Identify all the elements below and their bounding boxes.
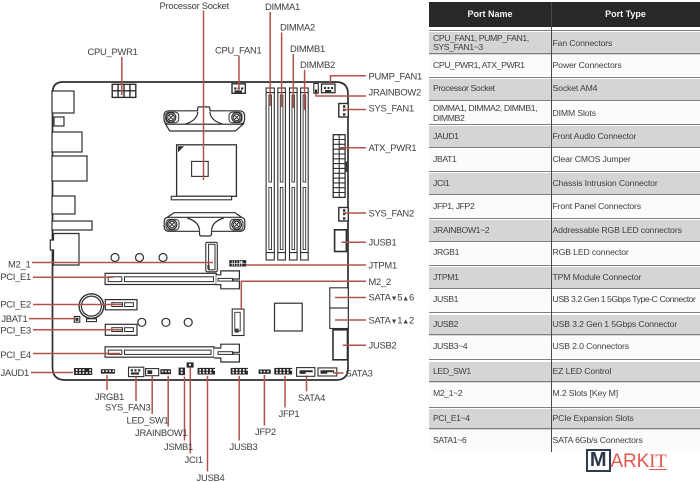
connector SATA4 <box>297 368 315 377</box>
wire M2_1 leader <box>32 262 213 264</box>
svg-text:SYS_FAN2: SYS_FAN2 <box>369 208 414 219</box>
label JRAINBOW2 <box>369 87 421 98</box>
connector JRGB1 <box>101 369 115 373</box>
label SATA4 <box>298 392 325 403</box>
mounting hole B <box>162 318 170 326</box>
label DIMMA2 <box>280 22 315 33</box>
connector JUSB2 <box>333 330 348 360</box>
svg-text:SATA▼1▲2: SATA▼1▲2 <box>369 315 414 326</box>
connector SYS_FAN2 <box>339 208 349 222</box>
label JRGB1 <box>95 391 124 402</box>
label SATA56 <box>369 292 414 303</box>
wire SATA12 leader <box>335 319 366 321</box>
label SATA12 <box>369 315 414 326</box>
svg-text:PCI_E3: PCI_E3 <box>0 324 31 335</box>
wire JSMB1 leader <box>184 377 186 441</box>
label DIMMB1 <box>290 43 325 54</box>
rear IO block 1 <box>52 91 74 113</box>
pcie slot PCI_E4 <box>105 344 239 362</box>
cpu retention bracket top <box>164 107 245 131</box>
wire Processor Socket leader <box>203 11 205 181</box>
wire DIMMA2 leader <box>281 33 283 108</box>
pcie slot PCI_E2 <box>105 300 137 310</box>
svg-text:DIMMB1: DIMMB1 <box>290 43 325 54</box>
connector JRAINBOW1 <box>160 369 171 374</box>
connector JCI1 <box>187 362 194 367</box>
wire M2_2 leader <box>241 281 366 310</box>
svg-text:JCI1: JCI1 <box>185 454 203 465</box>
connector SYS_FAN3 <box>129 367 144 376</box>
connector CPU_FAN1 <box>232 84 245 94</box>
svg-text:PCI_E1: PCI_E1 <box>0 271 31 282</box>
wire PUMP_FAN1 leader <box>331 76 367 84</box>
svg-text:ATX_PWR1: ATX_PWR1 <box>369 142 417 153</box>
wire SYS_FAN2 leader <box>343 212 366 214</box>
board outline <box>53 82 349 380</box>
connector JRAINBOW2 <box>314 84 319 94</box>
svg-text:JUSB4: JUSB4 <box>197 472 225 482</box>
wire PCI_E2 leader <box>33 304 122 306</box>
wire JTPM1 leader <box>246 264 366 266</box>
wire LED_SW1 leader <box>151 376 153 414</box>
wire SATA4 leader <box>306 377 308 392</box>
label JTPM1 <box>369 260 397 271</box>
svg-text:JUSB2: JUSB2 <box>369 340 397 351</box>
wire CPU_FAN1 leader <box>238 56 240 89</box>
connector SYS_FAN1 <box>339 104 349 118</box>
svg-text:DIMMA2: DIMMA2 <box>280 22 315 33</box>
wire JFP2 leader <box>263 375 265 426</box>
svg-text:PUMP_FAN1: PUMP_FAN1 <box>369 71 423 82</box>
svg-text:JRAINBOW1: JRAINBOW1 <box>135 427 187 438</box>
wire JCI1 leader <box>189 367 191 453</box>
connector PUMP_FAN1 <box>322 84 336 93</box>
svg-text:JAUD1: JAUD1 <box>1 367 29 378</box>
label ATX_PWR1 <box>369 142 417 153</box>
label PCI_E3 <box>0 324 31 335</box>
svg-text:LED_SW1: LED_SW1 <box>127 415 169 426</box>
svg-text:SYS_FAN1: SYS_FAN1 <box>369 103 414 114</box>
wire JRGB1 leader <box>106 375 108 390</box>
wire PCI_E3 leader <box>33 329 122 331</box>
wire SATA56 leader <box>335 297 366 299</box>
connector M2_1 <box>206 242 218 271</box>
wire CPU_PWR1 leader <box>121 57 123 95</box>
wire JBAT1 leader <box>29 318 76 320</box>
svg-text:JTPM1: JTPM1 <box>369 260 397 271</box>
svg-text:JFP2: JFP2 <box>255 426 276 437</box>
wire SYS_FAN3 leader <box>135 377 137 401</box>
wire JUSB1 leader <box>342 241 367 243</box>
svg-text:PCI_E4: PCI_E4 <box>0 349 31 360</box>
connector JUSB4 <box>198 368 215 375</box>
rear IO block 3 <box>52 132 82 152</box>
connector ATX_PWR1 <box>333 135 348 198</box>
svg-text:SATA4: SATA4 <box>298 392 325 403</box>
connector SATA5 SATA6 <box>330 288 349 308</box>
chipset <box>275 303 303 331</box>
label PCI_E1 <box>0 271 31 282</box>
connector JUSB3 <box>231 368 248 375</box>
connector JFP2 <box>259 370 271 374</box>
wire SYS_FAN1 leader <box>344 109 366 111</box>
wire DIMMA1 leader <box>269 12 271 106</box>
svg-text:JUSB3: JUSB3 <box>230 441 258 452</box>
mounting hole D <box>111 254 119 262</box>
label M2_2 <box>369 276 391 287</box>
mounting hole F <box>159 254 167 262</box>
rear IO block 6 <box>52 221 92 230</box>
label JUSB1 <box>369 237 397 248</box>
label LED_SW1 <box>127 415 169 426</box>
svg-text:DIMMB2: DIMMB2 <box>300 59 335 70</box>
mounting hole E <box>136 254 144 262</box>
label SYS_FAN2 <box>369 208 414 219</box>
mounting hole A <box>138 318 146 326</box>
label DIMMA1 <box>265 1 300 12</box>
svg-text:M2_1: M2_1 <box>8 258 30 269</box>
label JAUD1 <box>1 367 29 378</box>
connector JSMB1 <box>179 368 185 376</box>
rear IO block 5 <box>52 196 75 214</box>
label PCI_E4 <box>0 349 31 360</box>
pcie slot PCI_E1 <box>105 271 239 289</box>
svg-text:JRAINBOW2: JRAINBOW2 <box>369 87 421 98</box>
connector JFP1 <box>274 368 292 375</box>
wire JRAINBOW1 leader <box>167 376 169 427</box>
label PUMP_FAN1 <box>369 71 423 82</box>
label DIMMB2 <box>300 59 335 70</box>
svg-text:Processor Socket: Processor Socket <box>160 0 230 11</box>
label JFP2 <box>255 426 276 437</box>
connector JAUD1 <box>74 368 92 375</box>
battery <box>79 294 104 322</box>
connector M2_2 <box>232 309 244 336</box>
label JUSB3 <box>230 441 258 452</box>
label M2_1 <box>8 258 30 269</box>
svg-text:SATA3: SATA3 <box>346 368 373 379</box>
svg-text:JBAT1: JBAT1 <box>1 313 27 324</box>
cpu retention bracket bottom <box>164 213 245 236</box>
wire SATA3 leader <box>333 372 344 374</box>
wire ATX_PWR1 leader <box>340 147 366 149</box>
svg-text:SYS_FAN3: SYS_FAN3 <box>105 402 150 413</box>
svg-text:JSMB1: JSMB1 <box>164 441 193 452</box>
label PCI_E2 <box>0 298 31 309</box>
pcie slot PCI_E3 <box>105 324 137 335</box>
svg-text:DIMMA1: DIMMA1 <box>265 1 300 12</box>
connector CPU_PWR1 <box>112 84 136 97</box>
svg-text:CPU_PWR1: CPU_PWR1 <box>88 46 138 57</box>
label JSMB1 <box>164 441 193 452</box>
label JUSB2 <box>369 340 397 351</box>
rear IO block 2 <box>54 117 64 126</box>
wire JUSB4 leader <box>207 376 209 472</box>
wire DIMMB2 leader <box>304 70 306 110</box>
wire DIMMB1 leader <box>292 54 294 108</box>
wire JUSB2 leader <box>343 344 366 346</box>
dimm slot DIMMB1 <box>290 88 298 260</box>
rear IO block 7 <box>50 234 79 266</box>
label SATA3 <box>346 368 373 379</box>
label Processor Socket <box>160 0 230 11</box>
svg-text:JRGB1: JRGB1 <box>95 391 124 402</box>
connector JTPM1 <box>230 261 246 266</box>
wire PCI_E1 leader <box>33 276 113 278</box>
svg-text:SATA▼5▲6: SATA▼5▲6 <box>369 292 414 303</box>
mounting hole C <box>184 318 192 326</box>
label JUSB4 <box>197 472 225 482</box>
dimm slot DIMMA2 <box>278 88 286 260</box>
connector JUSB1 <box>335 230 347 252</box>
wire JFP1 leader <box>284 376 286 408</box>
dimm slot DIMMA1 <box>266 88 274 260</box>
label JCI1 <box>185 454 203 465</box>
jumper JBAT1 <box>74 316 80 322</box>
label CPU_FAN1 <box>215 45 261 56</box>
svg-text:JFP1: JFP1 <box>279 408 300 419</box>
label JRAINBOW1 <box>135 427 187 438</box>
rear IO block 4 <box>52 156 87 181</box>
label SYS_FAN3 <box>105 402 150 413</box>
switch LED_SW1 <box>146 369 159 376</box>
svg-text:JUSB1: JUSB1 <box>369 237 397 248</box>
label JBAT1 <box>1 313 27 324</box>
label SYS_FAN1 <box>369 103 414 114</box>
connector SATA1 SATA2 <box>330 308 349 329</box>
wire JRAINBOW2 leader <box>316 93 366 96</box>
wire PCI_E4 leader <box>33 353 120 355</box>
svg-text:M2_2: M2_2 <box>369 276 391 287</box>
svg-text:CPU_FAN1: CPU_FAN1 <box>215 45 261 56</box>
label CPU_PWR1 <box>88 46 138 57</box>
wire JUSB3 leader <box>238 376 240 441</box>
connector SATA3 <box>318 368 337 376</box>
label JFP1 <box>279 408 300 419</box>
cpu socket <box>171 145 236 200</box>
svg-text:PCI_E2: PCI_E2 <box>0 298 31 309</box>
dimm slot DIMMB2 <box>301 88 309 260</box>
wire JAUD1 leader <box>31 372 73 374</box>
